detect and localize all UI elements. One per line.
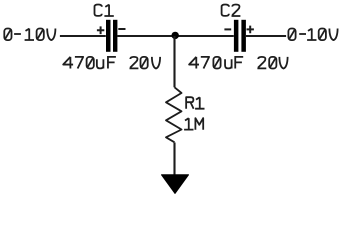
label 0-10V left (4, 29, 55, 41)
label 20V left (130, 57, 161, 69)
wire resistor to ground (173, 143, 175, 176)
C1 plus sign (97, 26, 104, 34)
wire vertical node to resistor (173, 36, 175, 87)
label 20V right (257, 57, 287, 69)
label C2 (222, 5, 241, 17)
capacitor C1 (106, 20, 117, 52)
C1 minus sign (118, 28, 125, 30)
label 470uF left (63, 57, 116, 69)
C2 plus sign (247, 26, 254, 34)
label 0-10V right (288, 29, 337, 41)
capacitor C2 (234, 20, 246, 52)
label R1 (186, 97, 204, 109)
node junction dot (172, 32, 179, 39)
ground symbol (162, 175, 189, 194)
wire right horizontal (246, 35, 286, 37)
wire left horizontal (60, 35, 106, 37)
label C1 (95, 5, 114, 17)
resistor R1 zigzag (166, 87, 182, 142)
wire middle horizontal (117, 35, 233, 37)
C2 minus sign (224, 28, 231, 30)
label 1M (184, 118, 203, 130)
label 470uF right (189, 57, 243, 69)
